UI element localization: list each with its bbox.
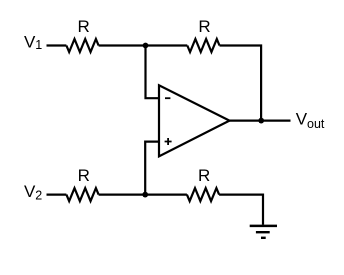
op-amp U1 non-inverting pin '+' mark [165, 138, 172, 145]
wire R3 to non-inverting junction to R4 (bottom rail) [99, 194, 187, 196]
wire V1 lead [47, 44, 67, 46]
ground [250, 226, 277, 238]
node V1 label [24, 32, 42, 52]
node V2 label [24, 182, 42, 202]
svg-text:2: 2 [35, 189, 42, 203]
svg-text:R: R [198, 17, 210, 36]
wire op-amp output [230, 119, 291, 121]
wire R4 to ground [219, 195, 263, 225]
wire junction up to op-amp non-inverting input [145, 142, 159, 195]
svg-text:R: R [198, 166, 210, 185]
svg-text:1: 1 [35, 38, 42, 52]
svg-text:R: R [78, 166, 90, 185]
resistor R4 (ground leg resistor) [187, 188, 219, 201]
svg-text:V: V [24, 182, 36, 201]
node Vout label [296, 110, 325, 131]
wire V2 lead [47, 194, 67, 196]
op-amp U1 [159, 85, 230, 156]
svg-text:V: V [24, 32, 36, 51]
svg-text:V: V [296, 110, 308, 129]
resistor R2 (feedback resistor) [187, 39, 219, 52]
node non-inverting-input junction [142, 192, 148, 198]
wire junction down to op-amp inverting input [146, 46, 160, 99]
svg-text:R: R [77, 17, 89, 36]
resistor R1 (V1 input resistor) [66, 39, 98, 52]
wire R2 to output node [220, 46, 262, 121]
resistor R3 (V2 input resistor) [66, 188, 98, 201]
svg-text:out: out [307, 117, 325, 131]
wire R1 to inverting junction to R2 (top rail) [99, 44, 188, 46]
node inverting-input junction [143, 43, 149, 49]
op-amp U1 inverting pin '-' mark [165, 97, 170, 99]
node output junction [258, 118, 264, 124]
